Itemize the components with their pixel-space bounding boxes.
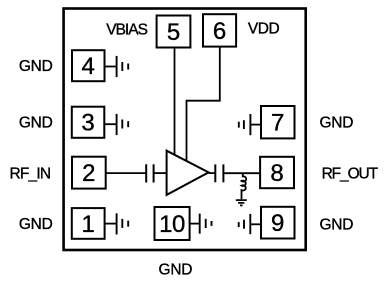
output coupling capacitor xyxy=(215,164,223,182)
svg-text:GND: GND xyxy=(19,58,53,75)
label GND pin3 xyxy=(19,115,53,132)
svg-text:RF_OUT: RF_OUT xyxy=(322,165,379,182)
svg-text:6: 6 xyxy=(213,18,226,45)
wire pin4 to C4 xyxy=(105,66,117,68)
svg-text:1: 1 xyxy=(82,211,95,238)
svg-text:8: 8 xyxy=(270,160,283,187)
bypass capacitor at pin 3 xyxy=(117,114,129,135)
label RF_IN xyxy=(10,165,51,182)
svg-text:5: 5 xyxy=(167,19,180,46)
svg-text:4: 4 xyxy=(82,53,95,80)
label GND pin7 xyxy=(319,115,353,132)
svg-text:RF_IN: RF_IN xyxy=(10,165,51,182)
svg-text:GND: GND xyxy=(319,115,353,132)
pin 6 xyxy=(203,14,236,46)
input coupling capacitor xyxy=(146,164,153,182)
pin 5 xyxy=(157,16,191,48)
wire C7 to pin7 xyxy=(250,124,261,126)
pin 4 xyxy=(72,50,105,81)
wire pin6 to amplifier xyxy=(187,47,220,162)
bypass capacitor at pin 4 xyxy=(117,56,129,77)
wire input capacitor to amplifier xyxy=(154,172,167,174)
bypass capacitor at pin 9 xyxy=(239,214,251,234)
label VBIAS xyxy=(106,21,147,38)
label GND pin1 xyxy=(19,216,53,233)
pin 7 xyxy=(261,106,295,138)
label RF_OUT xyxy=(322,165,379,182)
label GND pin4 xyxy=(19,58,53,75)
svg-text:VBIAS: VBIAS xyxy=(106,21,147,38)
wire pin1 to C1 xyxy=(105,223,117,225)
wire pin3 to C3 xyxy=(104,123,116,125)
op-amp amplifier triangle xyxy=(167,151,209,195)
wire C9 to pin9 xyxy=(250,223,261,225)
svg-text:GND: GND xyxy=(19,115,53,132)
label VDD xyxy=(248,20,280,37)
pin 2 xyxy=(72,157,106,189)
svg-text:GND: GND xyxy=(159,262,193,279)
label GND bottom xyxy=(159,262,193,279)
label GND pin9 xyxy=(319,217,353,234)
pin 3 xyxy=(72,107,105,138)
wire amplifier to output capacitor xyxy=(209,172,216,174)
ground xyxy=(236,200,247,205)
pin 9 xyxy=(261,207,295,239)
svg-text:7: 7 xyxy=(271,110,284,137)
pin 10 xyxy=(155,207,190,240)
svg-text:9: 9 xyxy=(271,210,284,237)
wire output capacitor to pin 8 xyxy=(223,172,260,174)
bypass capacitor at pin 1 xyxy=(117,213,129,234)
svg-text:10: 10 xyxy=(159,211,185,238)
bypass capacitor at pin 7 xyxy=(239,114,251,135)
svg-text:3: 3 xyxy=(81,110,94,137)
bypass capacitor at pin 10 xyxy=(200,214,212,234)
choke inductor xyxy=(242,173,247,199)
pin 8 xyxy=(260,157,294,188)
wire pin10 to C10 xyxy=(190,223,200,225)
wire pin5 to amplifier xyxy=(174,48,176,156)
package outline xyxy=(64,9,306,251)
svg-text:GND: GND xyxy=(319,217,353,234)
pin 1 xyxy=(72,208,105,239)
svg-text:GND: GND xyxy=(19,216,53,233)
svg-text:2: 2 xyxy=(82,160,95,187)
svg-text:VDD: VDD xyxy=(248,20,280,37)
wire pin2 to input capacitor xyxy=(106,172,147,174)
